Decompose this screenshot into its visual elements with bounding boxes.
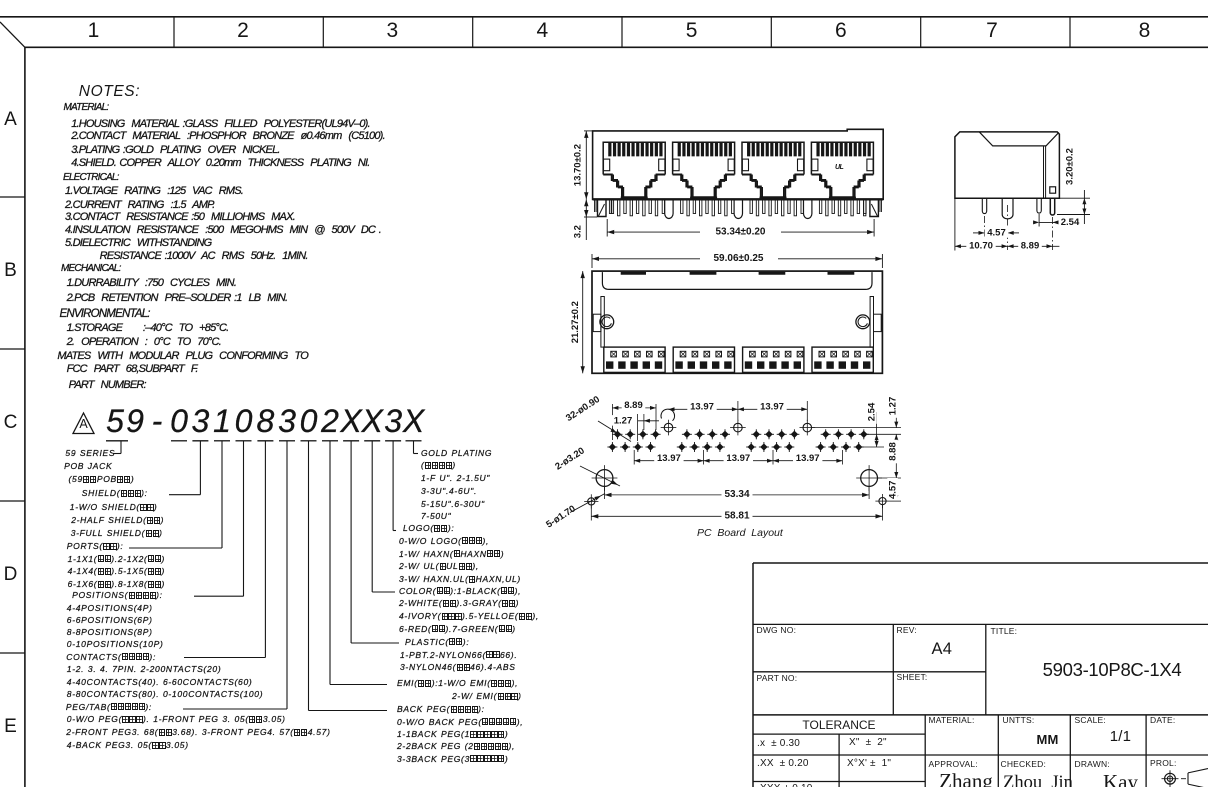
svg-text:3.2: 3.2	[573, 225, 584, 238]
svg-text:5-ø1.70: 5-ø1.70	[544, 503, 577, 530]
svg-text:4.57: 4.57	[987, 227, 1006, 238]
svg-text:1.27: 1.27	[614, 415, 633, 426]
svg-text:58.81: 58.81	[724, 511, 749, 522]
svg-text:32-ø0.90: 32-ø0.90	[564, 394, 602, 424]
svg-text:10.70: 10.70	[969, 241, 993, 252]
svg-text:3.20±0.2: 3.20±0.2	[1065, 148, 1076, 185]
svg-text:2.54: 2.54	[1061, 217, 1080, 228]
svg-text:1.27: 1.27	[888, 397, 899, 416]
svg-text:13.97: 13.97	[657, 453, 681, 464]
svg-text:21.27±0.2: 21.27±0.2	[570, 301, 581, 343]
svg-text:2.54: 2.54	[867, 402, 878, 421]
svg-text:53.34: 53.34	[724, 489, 749, 500]
svg-text:2-ø3.20: 2-ø3.20	[553, 445, 586, 472]
svg-text:8.89: 8.89	[1021, 241, 1040, 252]
svg-text:13.97: 13.97	[796, 453, 820, 464]
svg-text:13.97: 13.97	[690, 402, 714, 413]
svg-text:13.97: 13.97	[726, 453, 750, 464]
svg-text:53.34±0.20: 53.34±0.20	[716, 227, 766, 238]
svg-text:59.06±0.25: 59.06±0.25	[714, 253, 764, 264]
svg-text:13.97: 13.97	[760, 402, 784, 413]
svg-text:4.57: 4.57	[888, 481, 899, 500]
svg-text:8.89: 8.89	[624, 400, 643, 411]
svg-text:13.70±0.2: 13.70±0.2	[573, 144, 584, 186]
svg-text:8.88: 8.88	[888, 442, 899, 461]
